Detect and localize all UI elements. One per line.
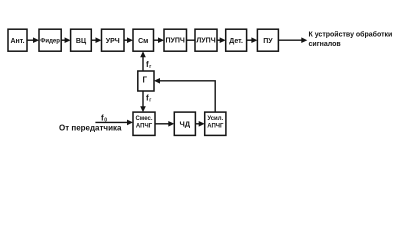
svg-text:ПУПЧ: ПУПЧ: [166, 38, 185, 45]
wire output ПУ->processing: [278, 37, 307, 43]
wire ЧД->Усил.АПЧГ: [195, 121, 204, 127]
svg-text:ЛУПЧ: ЛУПЧ: [196, 38, 215, 45]
wire Смес.АПЧГ->ЧД: [155, 121, 174, 127]
svg-text:АПЧГ: АПЧГ: [136, 124, 153, 130]
wire Г->Смес.АПЧГ (down): [140, 91, 146, 112]
label f0 input: [101, 114, 107, 124]
block ВЦ (input circuit): [71, 29, 92, 51]
label fг upper: [146, 60, 151, 70]
svg-text:ВЦ: ВЦ: [76, 38, 87, 45]
label fг lower: [146, 93, 151, 103]
svg-text:УРЧ: УРЧ: [106, 38, 120, 45]
svg-text:См: См: [138, 38, 148, 45]
svg-text:ЧД: ЧД: [179, 119, 190, 128]
label От передатчика: [59, 124, 122, 133]
wire См->ПУПЧ: [154, 37, 165, 43]
block ПУПЧ (preliminary IF amplifier): [164, 29, 187, 51]
block Фидер (feeder): [39, 29, 61, 51]
wire feedback Усил.АПЧГ->Г: [154, 78, 215, 112]
block См (mixer): [133, 29, 154, 51]
svg-text:сигналов: сигналов: [309, 41, 342, 48]
block ПУ (video amplifier): [257, 29, 278, 51]
svg-text:Ант.: Ант.: [10, 38, 24, 45]
block Г (local oscillator): [138, 71, 154, 91]
wire Ант.->Фидер: [27, 37, 39, 43]
block Ант. (antenna): [8, 29, 27, 51]
wire Фидер->ВЦ: [61, 37, 70, 43]
svg-text:Усил.: Усил.: [207, 116, 223, 122]
block ЛУПЧ (main IF amplifier): [195, 29, 217, 51]
block ЧД (frequency discriminator): [174, 112, 195, 135]
wire Дет.->ПУ: [247, 37, 258, 43]
label output text: [309, 31, 393, 48]
wire ВЦ->УРЧ: [91, 37, 101, 43]
block Дет. (detector): [226, 29, 247, 51]
wire Г->См (up): [140, 51, 146, 71]
wire ПУПЧ-ЛУПЧ (no head): [187, 39, 196, 41]
svg-text:Г: Г: [143, 75, 148, 84]
block Смес. АПЧГ (AFC mixer): [133, 112, 155, 135]
wire input from transmitter: [95, 120, 133, 126]
svg-text:г: г: [149, 98, 151, 104]
svg-text:г: г: [149, 64, 151, 70]
svg-text:К устройству обработки: К устройству обработки: [309, 31, 393, 39]
block Усил. АПЧГ (AFC amplifier): [205, 112, 226, 135]
svg-text:Фидер: Фидер: [40, 38, 60, 44]
svg-text:Дет.: Дет.: [229, 38, 243, 45]
svg-text:АПЧГ: АПЧГ: [207, 124, 224, 130]
wire УРЧ->См: [124, 37, 133, 43]
wire ЛУПЧ->Дет.: [217, 37, 226, 43]
block УРЧ (RF amplifier): [102, 29, 125, 51]
svg-text:От передатчика: От передатчика: [59, 124, 122, 133]
svg-text:Смес.: Смес.: [135, 116, 152, 122]
svg-text:ПУ: ПУ: [263, 38, 273, 45]
